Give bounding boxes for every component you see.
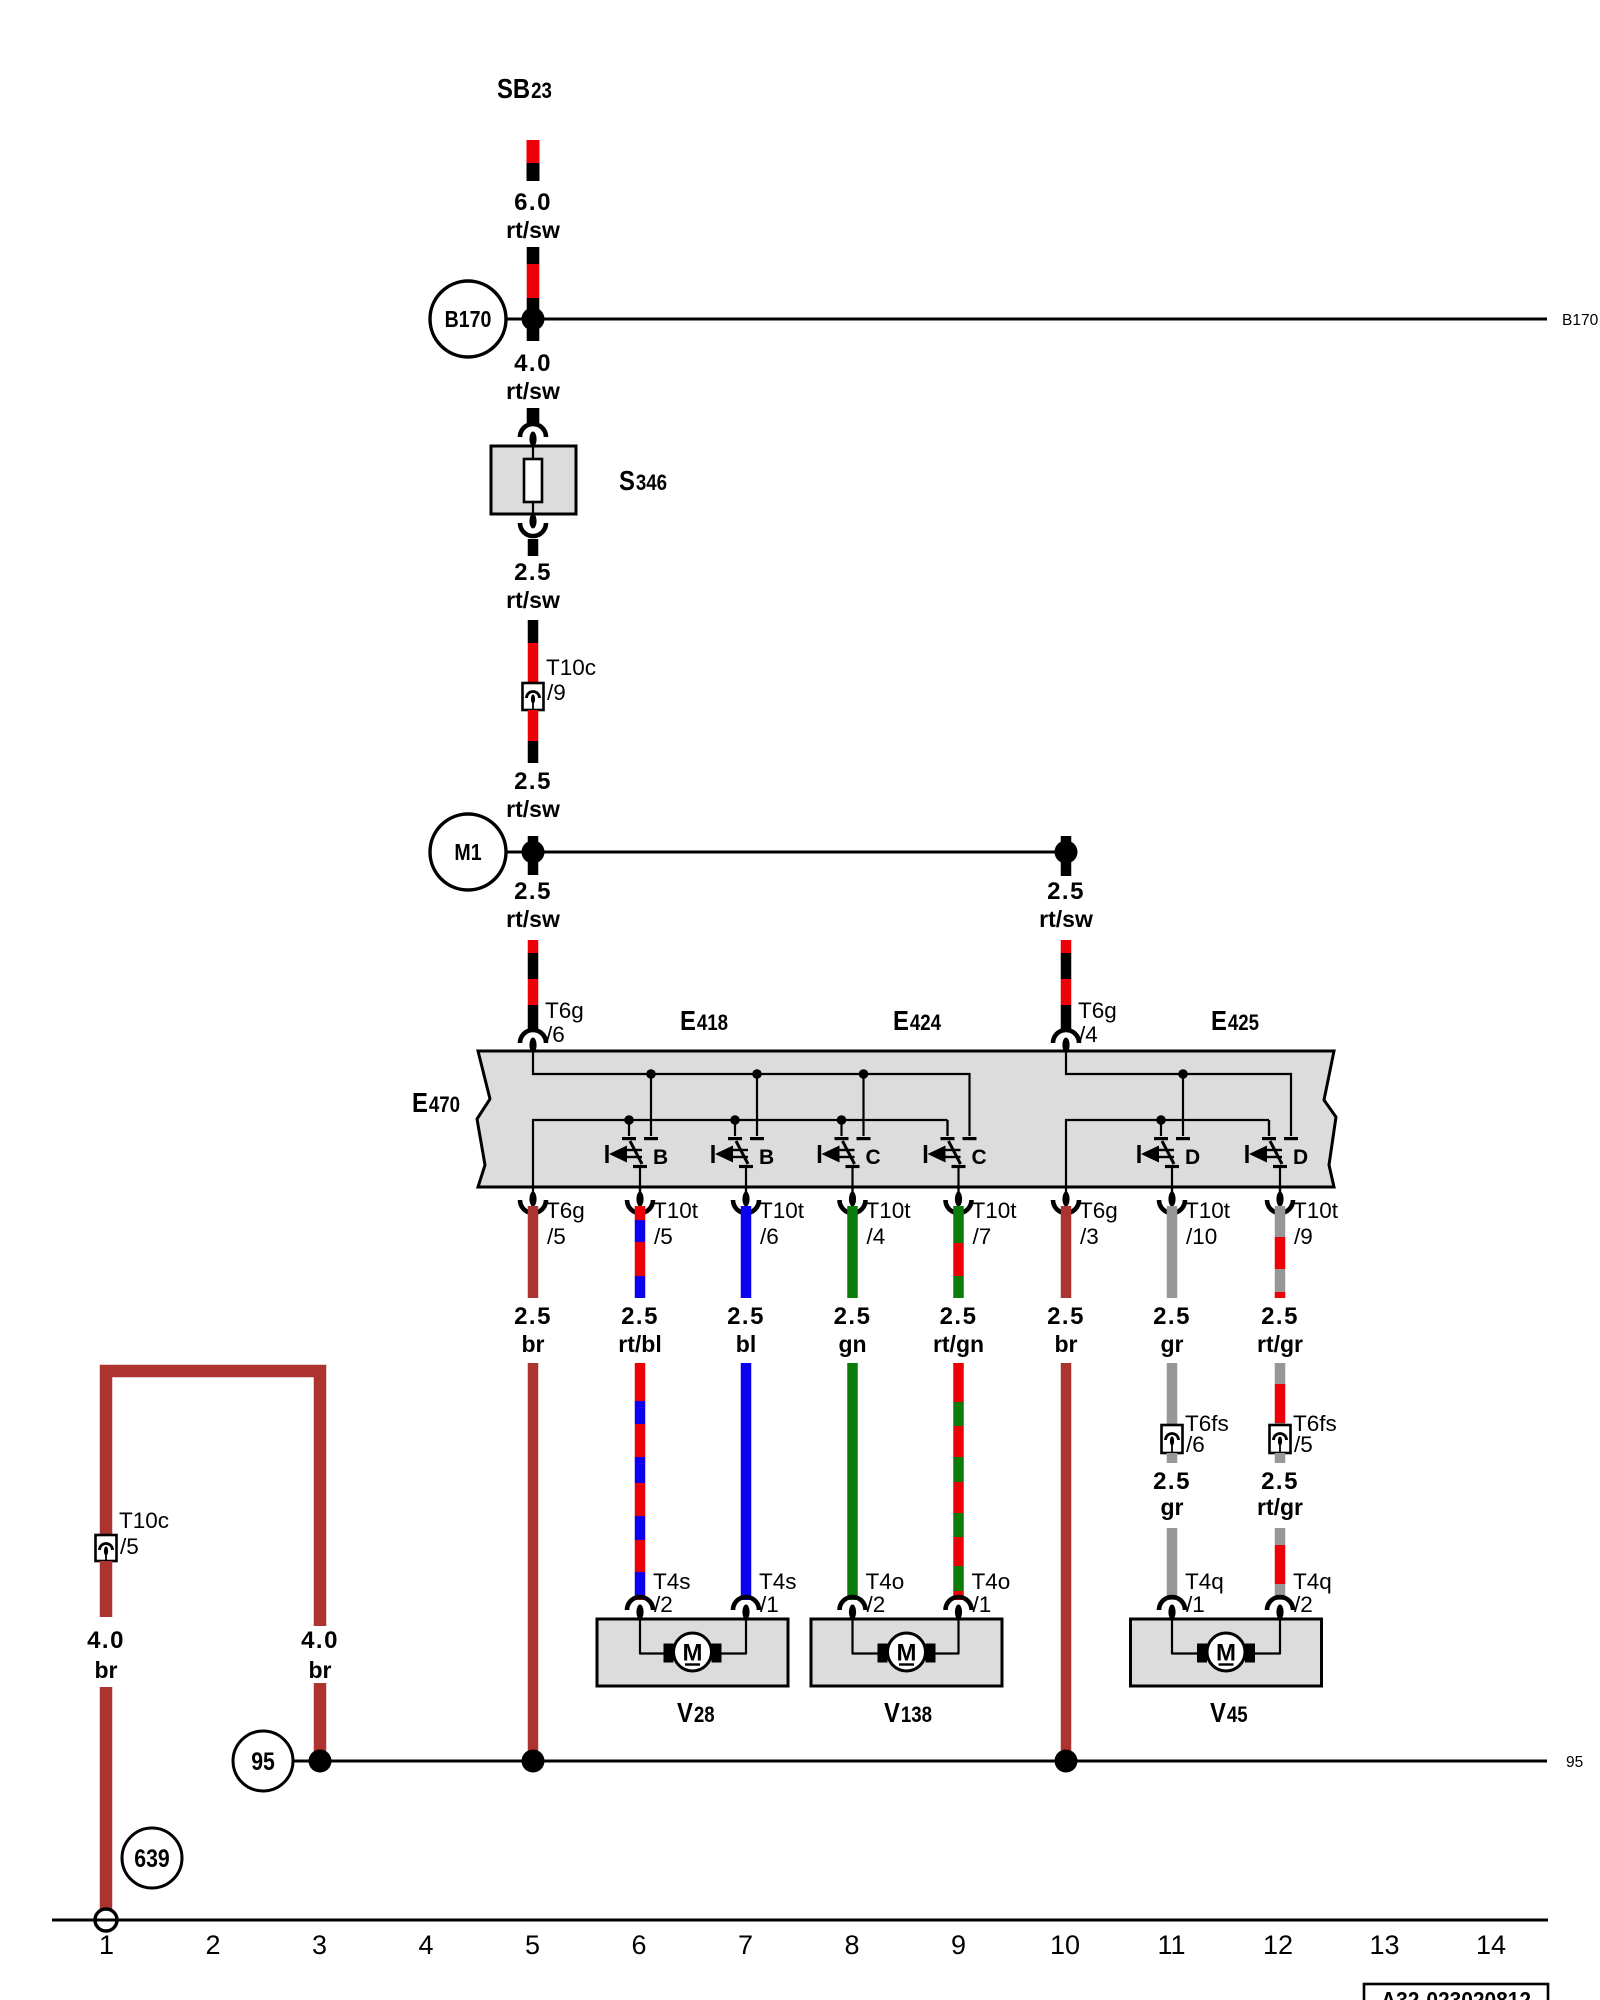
connector T6fs/6	[1162, 1425, 1183, 1453]
svg-text:V: V	[884, 1697, 900, 1728]
fuse S346 top connector	[520, 424, 546, 447]
svg-text:12: 12	[1263, 1930, 1293, 1960]
connector T4o/2	[840, 1597, 866, 1619]
wire label 2.5 rt/bl	[618, 1303, 661, 1357]
svg-text:/2: /2	[867, 1592, 886, 1617]
svg-text:2.5: 2.5	[834, 1303, 872, 1330]
connector T4s/2	[627, 1597, 653, 1620]
svg-text:SB: SB	[497, 73, 530, 104]
svg-text:M: M	[683, 1640, 703, 1667]
svg-text:95: 95	[251, 1748, 275, 1776]
wire label 2.5 rt/sw	[506, 768, 560, 822]
connector T10t/6 pin	[733, 1188, 759, 1213]
svg-text:rt/gr: rt/gr	[1257, 1494, 1303, 1520]
svg-text:/2: /2	[1294, 1592, 1313, 1617]
svg-text:425: 425	[1228, 1010, 1259, 1035]
wire 2.5 gr to T6fs/6	[1167, 1363, 1178, 1425]
wire 4.0 br to ground 639	[100, 1687, 113, 1910]
switch E418 contact B1	[607, 1120, 668, 1196]
ground symbol	[95, 1909, 117, 1931]
svg-text:T6g: T6g	[1078, 998, 1117, 1023]
wire label 2.5 rt/sw	[506, 559, 560, 613]
svg-text:E: E	[680, 1005, 696, 1036]
svg-text:/5: /5	[654, 1224, 673, 1249]
fuse S346 label	[619, 465, 667, 496]
connector T10c/9	[523, 683, 544, 710]
motor V28	[597, 1611, 788, 1728]
connector T10t/9 pin	[1267, 1188, 1293, 1213]
svg-text:T10t: T10t	[972, 1198, 1018, 1223]
svg-text:424: 424	[910, 1010, 942, 1035]
svg-text:11: 11	[1157, 1930, 1185, 1960]
internal bus from T6g/6	[533, 1052, 970, 1136]
svg-text:/10: /10	[1186, 1224, 1217, 1249]
svg-text:B170: B170	[1562, 312, 1599, 329]
wire stub into fuse S346	[527, 408, 540, 425]
svg-text:E: E	[1211, 1005, 1227, 1036]
wire 2.5 bl from T10t/6	[741, 1206, 752, 1298]
svg-text:gr: gr	[1161, 1494, 1184, 1520]
svg-text:418: 418	[697, 1010, 728, 1035]
switch label E425	[1211, 1005, 1259, 1036]
svg-text:10: 10	[1050, 1930, 1080, 1960]
wire label 2.5 bl	[727, 1303, 765, 1357]
svg-text:bl: bl	[736, 1331, 756, 1357]
wire 2.5 rt/gr to T6fs/5	[1275, 1363, 1286, 1425]
svg-text:/6: /6	[760, 1224, 779, 1249]
connector label T4o/1	[972, 1569, 1011, 1617]
svg-text:T10t: T10t	[866, 1198, 912, 1223]
switch E425 contact D1	[1139, 1120, 1200, 1196]
svg-text:23: 23	[531, 78, 552, 103]
svg-text:/1: /1	[760, 1592, 779, 1617]
net label 95 right edge	[1566, 1754, 1583, 1771]
svg-text:T6g: T6g	[546, 1198, 585, 1223]
svg-text:T4o: T4o	[866, 1569, 905, 1594]
motor V45	[1131, 1611, 1322, 1728]
svg-text:2.5: 2.5	[1153, 1468, 1191, 1495]
svg-text:4.0: 4.0	[301, 1627, 339, 1654]
wire through node M1	[528, 836, 539, 875]
connector label T10t/9	[1293, 1198, 1339, 1249]
internal bus from T6g/5	[533, 1115, 948, 1188]
internal bus from T6g/4	[1066, 1052, 1291, 1136]
svg-text:470: 470	[429, 1092, 460, 1117]
svg-text:T4q: T4q	[1185, 1569, 1224, 1594]
svg-text:T10t: T10t	[653, 1198, 699, 1223]
svg-text:2.5: 2.5	[514, 768, 552, 795]
switch E424 contact C1	[820, 1120, 881, 1196]
svg-text:6.0: 6.0	[514, 189, 552, 216]
svg-text:639: 639	[134, 1845, 169, 1873]
svg-text:T10t: T10t	[1185, 1198, 1231, 1223]
svg-text:rt/gr: rt/gr	[1257, 1331, 1303, 1357]
connector T6g/6 pin	[520, 1030, 546, 1053]
wire label 2.5 gr	[1153, 1303, 1191, 1357]
wire 4.0 rt/sw	[527, 247, 540, 341]
svg-text:1: 1	[99, 1930, 114, 1960]
connector T10t/5 pin	[627, 1188, 653, 1213]
wire stub below T6fs/5	[1275, 1453, 1286, 1463]
svg-text:gr: gr	[1161, 1331, 1184, 1357]
svg-text:2.5: 2.5	[1261, 1468, 1299, 1495]
svg-text:/4: /4	[1079, 1022, 1098, 1047]
internal bus from T6g/3	[1066, 1115, 1269, 1188]
wire 2.5 rt/sw above connector T10c/9	[528, 620, 539, 683]
wire 4.0 br to node 95	[314, 1683, 327, 1761]
connector label T6g/6	[545, 998, 584, 1047]
svg-text:B: B	[759, 1146, 774, 1169]
wire 2.5 rt/gr to T4q/2	[1275, 1528, 1286, 1600]
connector T4q/2	[1267, 1597, 1293, 1620]
fuse S346	[491, 439, 576, 521]
wire 2.5 br to node 95	[528, 1363, 539, 1761]
wire 2.5 rt/sw into T6g/6	[528, 940, 539, 1031]
svg-text:4: 4	[418, 1930, 433, 1960]
svg-text:28: 28	[694, 1702, 715, 1727]
connector label T10t/4	[866, 1198, 912, 1249]
svg-text:/5: /5	[120, 1534, 139, 1559]
connector label T6fs/5	[1293, 1411, 1337, 1457]
svg-text:rt/sw: rt/sw	[506, 906, 560, 932]
node 95 junction dot 2	[522, 1750, 545, 1773]
wire label 2.5 gr lower	[1153, 1468, 1191, 1520]
svg-text:M1: M1	[454, 839, 481, 865]
svg-text:14: 14	[1476, 1930, 1506, 1960]
ground point 639 circle label	[122, 1828, 182, 1888]
switch E424 contact C2	[926, 1120, 987, 1196]
wire of node M1	[506, 851, 1066, 854]
svg-text:2.5: 2.5	[727, 1303, 765, 1330]
switch label E424	[893, 1005, 942, 1036]
control unit label E470	[412, 1087, 460, 1118]
svg-text:V: V	[1210, 1697, 1226, 1728]
connector label T6g/4	[1078, 998, 1117, 1047]
node 95 junction dot 1	[309, 1750, 332, 1773]
svg-text:/9: /9	[1294, 1224, 1313, 1249]
connector T4q/1	[1159, 1597, 1185, 1620]
svg-text:rt/gn: rt/gn	[933, 1331, 984, 1357]
svg-text:/5: /5	[547, 1224, 566, 1249]
svg-text:T4o: T4o	[972, 1569, 1011, 1594]
wire 2.5 rt/sw below connector T10c/9	[528, 710, 539, 763]
svg-text:rt/sw: rt/sw	[1039, 906, 1093, 932]
svg-text:D: D	[1293, 1146, 1308, 1169]
wire label 2.5 rt/gr	[1257, 1303, 1303, 1357]
node B170 junction dot	[522, 308, 545, 331]
svg-text:5: 5	[525, 1930, 540, 1960]
connector T6g/5 pin	[520, 1188, 546, 1213]
svg-text:D: D	[1185, 1146, 1200, 1169]
svg-text:br: br	[95, 1657, 118, 1683]
connector label T4s/2	[653, 1569, 691, 1617]
svg-text:br: br	[309, 1657, 332, 1683]
wire label 6.0 rt/sw	[506, 189, 560, 243]
connector T10c/5	[96, 1535, 117, 1561]
svg-text:E: E	[412, 1087, 428, 1118]
svg-text:2.5: 2.5	[1261, 1303, 1299, 1330]
svg-text:2.5: 2.5	[1047, 878, 1085, 905]
wire 2.5 rt/sw into T6g/4	[1061, 940, 1072, 1031]
svg-text:S: S	[619, 465, 635, 496]
svg-text:B170: B170	[445, 306, 492, 332]
connector label T4q/2	[1293, 1569, 1332, 1617]
svg-text:T10c: T10c	[546, 655, 596, 680]
wire 2.5 br from T6g/5	[528, 1206, 539, 1298]
svg-text:br: br	[1055, 1331, 1078, 1357]
wire 2.5 gn from T10t/4	[847, 1206, 858, 1298]
svg-text:T6g: T6g	[1079, 1198, 1118, 1223]
svg-text:gn: gn	[838, 1331, 866, 1357]
svg-text:/3: /3	[1080, 1224, 1099, 1249]
wire 2.5 rt/gn to T4o/1	[953, 1363, 964, 1600]
bottom rail	[52, 1919, 1548, 1922]
wire stub below M1 right junction	[1061, 836, 1072, 876]
connector T6fs/5	[1270, 1425, 1291, 1453]
svg-text:/2: /2	[654, 1592, 673, 1617]
svg-text:/7: /7	[973, 1224, 992, 1249]
svg-text:9: 9	[951, 1930, 966, 1960]
node M1 junction dot right	[1055, 841, 1078, 864]
svg-text:13: 13	[1369, 1930, 1399, 1960]
svg-text:E: E	[893, 1005, 909, 1036]
connector label T10t/6	[759, 1198, 805, 1249]
svg-text:T10t: T10t	[759, 1198, 805, 1223]
svg-text:6: 6	[631, 1930, 646, 1960]
svg-text:A32-023020812: A32-023020812	[1381, 1987, 1531, 2000]
node 95 circle	[233, 1731, 293, 1791]
svg-text:45: 45	[1227, 1702, 1248, 1727]
svg-text:M: M	[1216, 1640, 1236, 1667]
svg-text:rt/sw: rt/sw	[506, 796, 560, 822]
connector T10t/4 pin	[840, 1188, 866, 1213]
wire 2.5 gr from T10t/10	[1167, 1206, 1178, 1298]
node M1 circle	[430, 814, 506, 890]
connector T6g/3 pin	[1053, 1188, 1079, 1213]
svg-text:2: 2	[205, 1930, 220, 1960]
wire label 2.5 rt/gn	[933, 1303, 984, 1357]
connector label T10c/9	[546, 655, 596, 705]
svg-text:M: M	[897, 1640, 917, 1667]
wire 2.5 br from T6g/3	[1061, 1206, 1072, 1298]
wire 2.5 gn to T4o/2	[847, 1363, 858, 1600]
svg-text:/4: /4	[867, 1224, 886, 1249]
svg-text:T4s: T4s	[653, 1569, 691, 1594]
fuse label SB23	[497, 73, 552, 104]
wire label 2.5 br right	[1047, 1303, 1085, 1357]
svg-text:T10t: T10t	[1293, 1198, 1339, 1223]
connector label T10t/10	[1185, 1198, 1231, 1249]
svg-text:T4s: T4s	[759, 1569, 797, 1594]
wire 4.0 br loop	[106, 1371, 320, 1626]
svg-text:br: br	[522, 1331, 545, 1357]
node B170 circle	[430, 281, 506, 357]
fuse S346 bottom connector	[520, 514, 546, 537]
connector label T6g/5	[546, 1198, 585, 1249]
svg-text:138: 138	[901, 1702, 932, 1727]
svg-text:2.5: 2.5	[1047, 1303, 1085, 1330]
svg-text:C: C	[866, 1146, 881, 1169]
wire 2.5 rt/bl from T10t/5	[635, 1206, 646, 1298]
net label B170 right edge	[1562, 312, 1599, 329]
connector T6g/4 pin	[1053, 1030, 1079, 1053]
wire of node 95	[293, 1760, 1547, 1763]
connector T10t/7 pin	[946, 1188, 972, 1213]
wire label 2.5 gn	[834, 1303, 872, 1357]
svg-text:/6: /6	[546, 1022, 565, 1047]
svg-text:/5: /5	[1294, 1432, 1313, 1457]
wire stub below fuse S346	[528, 539, 539, 556]
svg-text:T6g: T6g	[545, 998, 584, 1023]
node M1 junction dot left	[522, 841, 545, 864]
svg-text:3: 3	[312, 1930, 327, 1960]
grid numbers	[99, 1930, 1506, 1960]
switch E425 contact D2	[1247, 1120, 1308, 1196]
svg-text:V: V	[677, 1697, 693, 1728]
svg-text:rt/sw: rt/sw	[506, 587, 560, 613]
svg-text:T10c: T10c	[119, 1508, 169, 1533]
svg-text:rt/bl: rt/bl	[618, 1331, 661, 1357]
wire 2.5 rt/gr from T10t/9	[1275, 1206, 1286, 1298]
wire label 2.5 rt/sw right	[1039, 878, 1093, 932]
wire label 2.5 rt/sw left	[506, 878, 560, 932]
svg-text:4.0: 4.0	[514, 350, 552, 377]
svg-text:B: B	[653, 1146, 668, 1169]
svg-text:/6: /6	[1186, 1432, 1205, 1457]
wire 2.5 gr to T4q/1	[1167, 1528, 1178, 1600]
svg-text:2.5: 2.5	[1153, 1303, 1191, 1330]
wire 6.0 rt/sw from fuse SB23	[527, 140, 540, 181]
motor V138	[811, 1611, 1002, 1728]
switch label E418	[680, 1005, 728, 1036]
wire 2.5 bl to T4s/1	[741, 1363, 752, 1600]
svg-text:95: 95	[1566, 1754, 1583, 1771]
svg-text:2.5: 2.5	[514, 559, 552, 586]
connector label T10t/5	[653, 1198, 699, 1249]
svg-text:/1: /1	[973, 1592, 992, 1617]
svg-text:rt/sw: rt/sw	[506, 378, 560, 404]
wire 2.5 rt/bl to T4s/2	[635, 1363, 646, 1600]
svg-text:/1: /1	[1186, 1592, 1205, 1617]
wire to connection B170	[506, 318, 1547, 321]
connector label T6g/3	[1079, 1198, 1118, 1249]
svg-text:2.5: 2.5	[940, 1303, 978, 1330]
control unit E470 box	[477, 1051, 1336, 1187]
connector label T4q/1	[1185, 1569, 1224, 1617]
wire label 4.0 br right	[301, 1627, 339, 1683]
wire label 4.0 br left	[87, 1627, 125, 1683]
svg-text:T4q: T4q	[1293, 1569, 1332, 1594]
wire label 2.5 br	[514, 1303, 552, 1357]
wire 2.5 rt/gn from T10t/7	[953, 1206, 964, 1298]
connector label T4s/1	[759, 1569, 797, 1617]
svg-text:rt/sw: rt/sw	[506, 217, 560, 243]
svg-text:346: 346	[636, 470, 667, 495]
node 95 junction dot 3	[1055, 1750, 1078, 1773]
connector T10t/10 pin	[1159, 1188, 1185, 1213]
wire label 2.5 rt/gr lower	[1257, 1468, 1303, 1520]
svg-text:4.0: 4.0	[87, 1627, 125, 1654]
wire 2.5 br to node 95 right	[1061, 1363, 1072, 1761]
connector label T10t/7	[972, 1198, 1018, 1249]
svg-text:2.5: 2.5	[621, 1303, 659, 1330]
wire label 4.0 rt/sw	[506, 350, 560, 404]
svg-text:2.5: 2.5	[514, 1303, 552, 1330]
connector T4s/1	[733, 1597, 759, 1620]
svg-text:C: C	[972, 1146, 987, 1169]
svg-text:8: 8	[844, 1930, 859, 1960]
connector label T10c/5	[119, 1508, 169, 1559]
wire stub below T6fs/6	[1167, 1453, 1178, 1463]
svg-text:/9: /9	[547, 680, 566, 705]
connector label T6fs/6	[1185, 1411, 1229, 1457]
diagram number box A32-023020812	[1364, 1984, 1548, 2000]
svg-text:7: 7	[738, 1930, 753, 1960]
switch E418 contact B2	[713, 1120, 774, 1196]
connector label T4o/2	[866, 1569, 905, 1617]
wire 4.0 br below T10c/5	[100, 1561, 113, 1617]
svg-text:2.5: 2.5	[514, 878, 552, 905]
connector T4o/1	[946, 1597, 972, 1619]
